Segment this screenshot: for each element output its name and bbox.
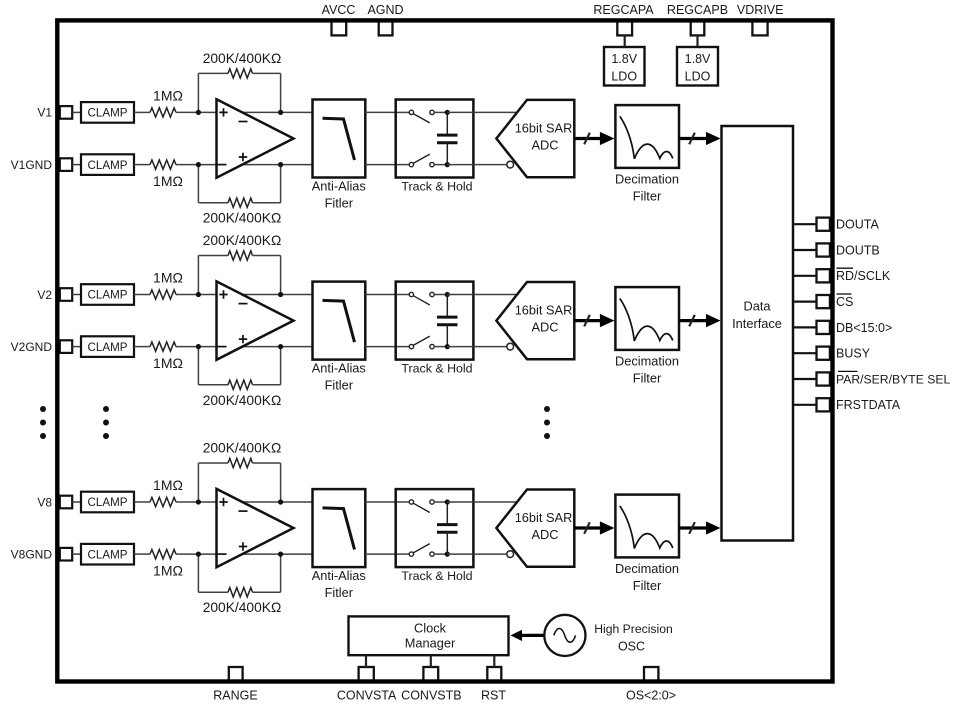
svg-text:CONVSTA: CONVSTA [337,688,397,702]
svg-text:V8: V8 [37,495,52,509]
svg-text:AVCC: AVCC [322,3,356,17]
svg-text:OSC: OSC [618,640,645,654]
svg-text:200K/400KΩ: 200K/400KΩ [203,51,282,66]
svg-text:1MΩ: 1MΩ [153,270,183,286]
svg-text:Anti-Alias: Anti-Alias [312,178,366,193]
svg-text:1MΩ: 1MΩ [153,563,183,579]
svg-text:200K/400KΩ: 200K/400KΩ [203,440,282,455]
svg-text:CLAMP: CLAMP [88,159,128,172]
svg-text:Fitler: Fitler [325,377,354,392]
svg-text:V2: V2 [37,288,52,302]
svg-text:CLAMP: CLAMP [88,289,128,302]
svg-text:RD/SCLK: RD/SCLK [836,269,891,283]
svg-text:Interface: Interface [732,316,782,331]
svg-text:CLAMP: CLAMP [88,107,128,120]
svg-text:1MΩ: 1MΩ [153,477,183,493]
svg-text:Decimation: Decimation [615,353,679,368]
svg-text:Decimation: Decimation [615,561,679,576]
svg-text:200K/400KΩ: 200K/400KΩ [203,211,282,226]
svg-text:CONVSTB: CONVSTB [401,688,461,702]
svg-text:CS: CS [836,295,853,309]
svg-text:Data: Data [743,299,771,314]
svg-text:DOUTA: DOUTA [836,218,879,232]
svg-text:CLAMP: CLAMP [88,548,128,561]
svg-text:LDO: LDO [611,70,637,84]
svg-text:Filter: Filter [633,578,662,593]
svg-text:Filter: Filter [633,370,662,385]
svg-text:Filter: Filter [633,188,662,203]
svg-text:LDO: LDO [685,70,711,84]
svg-text:Manager: Manager [405,636,456,651]
svg-text:Fitler: Fitler [325,195,354,210]
svg-text:16bit SAR: 16bit SAR [515,302,573,317]
svg-text:V1: V1 [37,106,52,120]
svg-text:REGCAPB: REGCAPB [667,3,728,17]
svg-text:Track & Hold: Track & Hold [401,179,472,193]
svg-text:ADC: ADC [531,527,558,542]
svg-text:ADC: ADC [531,138,558,153]
svg-text:V8GND: V8GND [11,547,53,561]
svg-text:BUSY: BUSY [836,347,871,361]
svg-text:ADC: ADC [531,320,558,335]
svg-text:AGND: AGND [367,3,403,17]
svg-text:RST: RST [481,688,506,702]
svg-text:16bit SAR: 16bit SAR [515,510,573,525]
svg-text:V1GND: V1GND [11,158,53,172]
svg-text:V2GND: V2GND [11,340,53,354]
svg-text:1MΩ: 1MΩ [153,173,183,189]
svg-text:Track & Hold: Track & Hold [401,569,472,583]
svg-text:VDRIVE: VDRIVE [737,3,784,17]
svg-text:1MΩ: 1MΩ [153,88,183,104]
svg-text:Fitler: Fitler [325,585,354,600]
svg-text:DB<15:0>: DB<15:0> [836,321,892,335]
svg-text:FRSTDATA: FRSTDATA [836,398,901,412]
svg-text:1MΩ: 1MΩ [153,355,183,371]
svg-text:CLAMP: CLAMP [88,341,128,354]
svg-text:REGCAPA: REGCAPA [593,3,654,17]
svg-text:High Precision: High Precision [594,622,673,636]
svg-text:Decimation: Decimation [615,171,679,186]
svg-text:Anti-Alias: Anti-Alias [312,360,366,375]
svg-text:CLAMP: CLAMP [88,496,128,509]
svg-text:1.8V: 1.8V [611,52,637,66]
svg-text:200K/400KΩ: 200K/400KΩ [203,393,282,408]
svg-text:Anti-Alias: Anti-Alias [312,568,366,583]
svg-text:PAR/SER/BYTE SEL: PAR/SER/BYTE SEL [836,372,950,386]
svg-text:RANGE: RANGE [213,688,257,702]
svg-text:1.8V: 1.8V [685,52,711,66]
svg-text:16bit SAR: 16bit SAR [515,120,573,135]
svg-text:200K/400KΩ: 200K/400KΩ [203,233,282,248]
svg-text:Track & Hold: Track & Hold [401,361,472,375]
svg-text:200K/400KΩ: 200K/400KΩ [203,600,282,615]
svg-text:Clock: Clock [414,620,447,635]
svg-text:DOUTB: DOUTB [836,243,880,257]
svg-text:OS<2:0>: OS<2:0> [626,688,676,702]
